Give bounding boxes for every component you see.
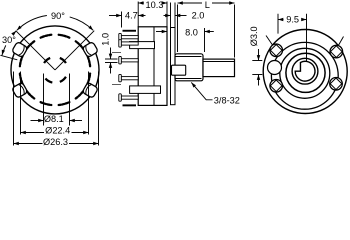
- bushing: [175, 54, 203, 81]
- svg-text:10.3: 10.3: [146, 0, 164, 10]
- pin at y=43.5: [121, 42, 138, 45]
- ear at 330 deg: [82, 82, 98, 98]
- thread callout 3/8-32: [191, 82, 212, 99]
- slot at 225 deg: [26, 91, 34, 99]
- svg-text:Ø22.4: Ø22.4: [45, 125, 70, 135]
- dimension O26.3: [14, 143, 43, 145]
- rear body circle: [271, 42, 338, 109]
- slot at 195 deg: [20, 74, 23, 85]
- svg-text:90°: 90°: [51, 11, 65, 21]
- clip top-left: [270, 44, 283, 57]
- ear at 210 deg: [12, 82, 28, 98]
- slot at 345 deg: [87, 74, 90, 85]
- 30 deg dimension arc: [13, 31, 16, 35]
- pin at y=37.2: [121, 36, 138, 39]
- shaft: [203, 59, 235, 77]
- index angle line at 135 deg: [16, 31, 55, 70]
- svg-text:Ø3.0: Ø3.0: [249, 26, 259, 46]
- dimension L: [178, 2, 203, 4]
- faint rear pin line: [112, 52, 121, 54]
- svg-text:9.5: 9.5: [286, 14, 299, 24]
- slot at 135 deg: [26, 41, 34, 49]
- svg-text:30°: 30°: [2, 35, 16, 45]
- locating lug (side): [172, 65, 186, 75]
- slot at 45 deg: [76, 41, 84, 49]
- slot at 315 deg: [76, 91, 84, 99]
- dimension O3.0: [252, 60, 262, 62]
- side view body: [138, 27, 167, 106]
- slot at 255 deg: [41, 102, 52, 105]
- slot at 165 deg: [20, 56, 23, 67]
- svg-text:Ø26.3: Ø26.3: [43, 137, 68, 147]
- dimension O8.1: [31, 120, 44, 122]
- bushing bore: [292, 58, 318, 84]
- extension lines side view: [137, 2, 139, 27]
- slot at 285 deg: [59, 102, 70, 105]
- index angle line at 165 deg: [0, 55, 17, 60]
- clip bottom-left: [270, 80, 283, 93]
- dimension O22.4: [21, 132, 45, 134]
- mounting plate: [171, 28, 176, 105]
- dashed O8.1 center circle: [60, 58, 66, 63]
- shaft with flat: [295, 61, 315, 81]
- slot at 75 deg: [59, 35, 70, 38]
- svg-text:8.0: 8.0: [185, 27, 198, 37]
- index angle line at 45 deg: [55, 31, 94, 70]
- ear at 150 deg: [12, 41, 28, 57]
- dimension 9.5: [277, 14, 279, 34]
- dimension 2.0: [164, 15, 171, 17]
- pin at y=78.2: [121, 77, 138, 80]
- slot at 15 deg: [87, 56, 90, 67]
- clip bottom-right: [330, 78, 343, 91]
- extension lines for diameters: [43, 74, 45, 126]
- locating pin O3.0: [268, 61, 282, 75]
- wafer crossbar 1: [130, 42, 155, 49]
- 90 deg dimension arc: [70, 17, 94, 30]
- dimension 10.3: [138, 2, 144, 4]
- slot at 105 deg: [41, 35, 52, 38]
- wafer ring: [280, 48, 330, 98]
- wafer crossbar 2: [130, 86, 161, 94]
- svg-text:L: L: [205, 0, 210, 10]
- dimension 8.0: [156, 31, 167, 33]
- terminal pins: [123, 30, 137, 32]
- svg-text:4.7: 4.7: [125, 11, 138, 21]
- svg-text:Ø8.1: Ø8.1: [44, 114, 64, 124]
- svg-text:2.0: 2.0: [192, 11, 205, 21]
- pin at y=97.6: [121, 96, 138, 99]
- bushing outer: [286, 53, 325, 92]
- rear view flange circle: [263, 30, 347, 114]
- clip stub lines: [338, 37, 344, 48]
- ear at 30 deg: [82, 41, 98, 57]
- svg-text:1.0: 1.0: [101, 33, 111, 46]
- svg-text:3/8-32: 3/8-32: [214, 95, 240, 105]
- dimension 1.0 slot width: [105, 58, 118, 60]
- clip top-right: [330, 45, 343, 58]
- body internal line: [153, 27, 155, 106]
- front view: switch body outer circle O26.3: [11, 26, 99, 114]
- dimension 4.7: [109, 15, 122, 17]
- faint rear pin line 2: [112, 84, 121, 86]
- pin at y=60.3: [121, 59, 138, 62]
